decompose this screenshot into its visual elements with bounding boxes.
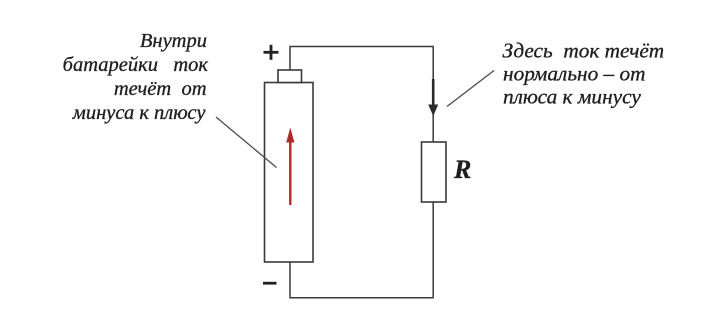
svg-text:течёт от: течёт от (114, 78, 207, 100)
svg-text:минуса к плюсу: минуса к плюсу (72, 102, 207, 124)
svg-text:Внутри: Внутри (140, 30, 207, 52)
svg-text:батарейки ток: батарейки ток (63, 54, 209, 76)
svg-text:R: R (453, 155, 471, 184)
svg-text:плюса к минусу: плюса к минусу (503, 85, 641, 109)
svg-text:нормально – от: нормально – от (503, 62, 646, 86)
svg-text:Здесь ток течёт: Здесь ток течёт (503, 39, 665, 63)
